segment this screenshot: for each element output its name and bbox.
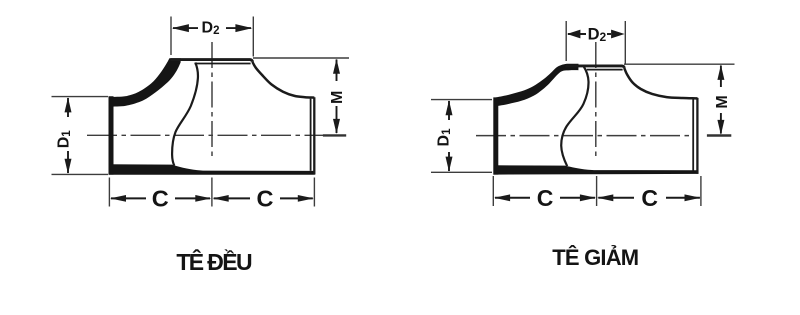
branch outlet inner (bore) edge bbox=[195, 63, 251, 65]
right shoulder curve (right drawing) bbox=[624, 68, 697, 99]
equal tee body (left drawing) bbox=[52, 17, 350, 276]
right C dimension (right drawing) bbox=[597, 194, 613, 201]
dimension M top extension line bbox=[253, 57, 349, 59]
dimension M top extension line (right drawing) bbox=[624, 63, 735, 65]
left C dimension (right drawing) bbox=[494, 194, 510, 201]
sectioned wall: left shoulder crescent bbox=[110, 58, 181, 106]
right end face outer line bbox=[313, 97, 315, 174]
C dimension extension lines (right drawing) bbox=[492, 176, 494, 206]
right end face outer line (right drawing) bbox=[696, 98, 698, 174]
branch outlet inner (bore) edge (right drawing) bbox=[587, 69, 623, 71]
dimension D1 extension lines (right drawing) bbox=[431, 99, 492, 101]
left C dimension bbox=[110, 195, 126, 202]
svg-text:C: C bbox=[641, 185, 658, 211]
branch outlet top edge (right drawing) bbox=[566, 66, 625, 68]
vertical centerline (branch axis, right drawing) bbox=[595, 42, 597, 158]
break line S-curve (right drawing) bbox=[561, 67, 588, 167]
right end face inner line (right drawing) bbox=[692, 99, 694, 170]
svg-text:TÊ GIẢM: TÊ GIẢM bbox=[552, 245, 638, 270]
sectioned wall: bottom of run (right drawing) bbox=[494, 165, 699, 174]
svg-text:M: M bbox=[714, 95, 731, 108]
dimension D1 arrows and line (right drawing) bbox=[446, 100, 453, 115]
dimension M arrows and line bbox=[333, 59, 340, 74]
vertical centerline (branch axis, left drawing) bbox=[211, 42, 213, 158]
branch outlet top edge bbox=[170, 60, 252, 62]
sectioned wall: left end face bbox=[109, 96, 114, 174]
svg-text:C: C bbox=[537, 185, 554, 211]
C dimension extension lines bbox=[108, 178, 110, 207]
horizontal centerline (run axis, right drawing) bbox=[476, 135, 690, 137]
svg-text:M: M bbox=[329, 91, 346, 104]
sectioned wall: left end face (right drawing) bbox=[493, 97, 498, 174]
right end face inner line bbox=[310, 99, 312, 171]
dimension D2 extension lines (right drawing) bbox=[565, 21, 567, 61]
svg-text:TÊ ĐỀU: TÊ ĐỀU bbox=[176, 248, 252, 275]
right C dimension bbox=[213, 195, 229, 202]
M lower reference tick (right drawing) bbox=[707, 134, 731, 136]
M lower reference tick on centreline bbox=[323, 134, 346, 136]
svg-text:C: C bbox=[257, 185, 274, 211]
right shoulder curve bbox=[252, 62, 314, 98]
break line S-curve between section and outside view bbox=[172, 63, 198, 166]
svg-text:C: C bbox=[152, 185, 169, 211]
dimension D1 extension lines bbox=[52, 96, 109, 98]
dimension D2 arrows and line (right drawing) bbox=[567, 30, 581, 39]
sectioned wall: bottom of run (thick left part, thin right part) bbox=[109, 164, 315, 174]
horizontal centerline (run axis, left drawing) bbox=[87, 134, 333, 136]
dimension D2 arrows and line bbox=[172, 24, 189, 32]
dimension D1 arrows and line bbox=[65, 97, 72, 112]
sectioned wall: left shoulder crescent (right drawing) bbox=[494, 64, 579, 107]
dimension M arrows and line (right drawing) bbox=[717, 65, 724, 80]
reducing tee body (right drawing) bbox=[431, 21, 735, 270]
dimension D2 extension lines (left drawing) bbox=[170, 17, 172, 56]
